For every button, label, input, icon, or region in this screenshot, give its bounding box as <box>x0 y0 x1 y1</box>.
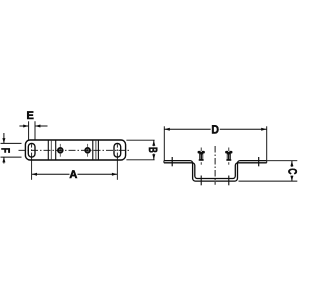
dim B line <box>153 140 155 159</box>
horizontal centerline <box>19 149 132 151</box>
dim D extension lines <box>164 126 266 160</box>
side profile outer line <box>164 161 267 182</box>
dim F arrows <box>3 133 5 164</box>
left slot <box>28 143 35 157</box>
slot centerline + A extension left <box>31 144 33 180</box>
stud 2 <box>225 151 232 161</box>
side profile inner line <box>164 163 267 179</box>
left bend lines <box>48 140 55 159</box>
dim D line <box>165 128 267 130</box>
side view centerline <box>214 146 216 185</box>
stud 1 <box>198 151 205 161</box>
svg-text:E: E <box>27 110 34 122</box>
hole 2 <box>85 148 90 153</box>
svg-text:B: B <box>146 147 160 153</box>
svg-text:D: D <box>211 122 219 136</box>
dim F extension lines <box>1 143 22 157</box>
hole 1 centerline ticks <box>59 144 61 157</box>
svg-text:F: F <box>0 148 13 153</box>
right slot <box>114 143 121 157</box>
hole 2 centerline ticks <box>87 144 89 157</box>
dim C extension lines <box>239 161 298 181</box>
flange slot mark right <box>258 157 260 166</box>
svg-text:C: C <box>285 168 299 174</box>
stud 2 centerline <box>228 148 230 165</box>
dim A line <box>32 173 118 175</box>
side profile right end cap <box>266 161 268 163</box>
dim B extension lines <box>126 140 154 160</box>
dim E arrows <box>19 125 47 127</box>
side profile left end cap <box>163 161 165 163</box>
stud 1 centerline <box>200 148 202 165</box>
bracket top view outline <box>25 140 125 160</box>
slot centerline + A extension right <box>116 144 118 180</box>
dim C line <box>291 161 293 181</box>
svg-text:A: A <box>69 169 77 181</box>
hole 1 <box>58 148 63 153</box>
flange slot mark left <box>171 157 173 166</box>
dim E extension lines <box>29 121 35 139</box>
right bend lines <box>93 140 99 159</box>
